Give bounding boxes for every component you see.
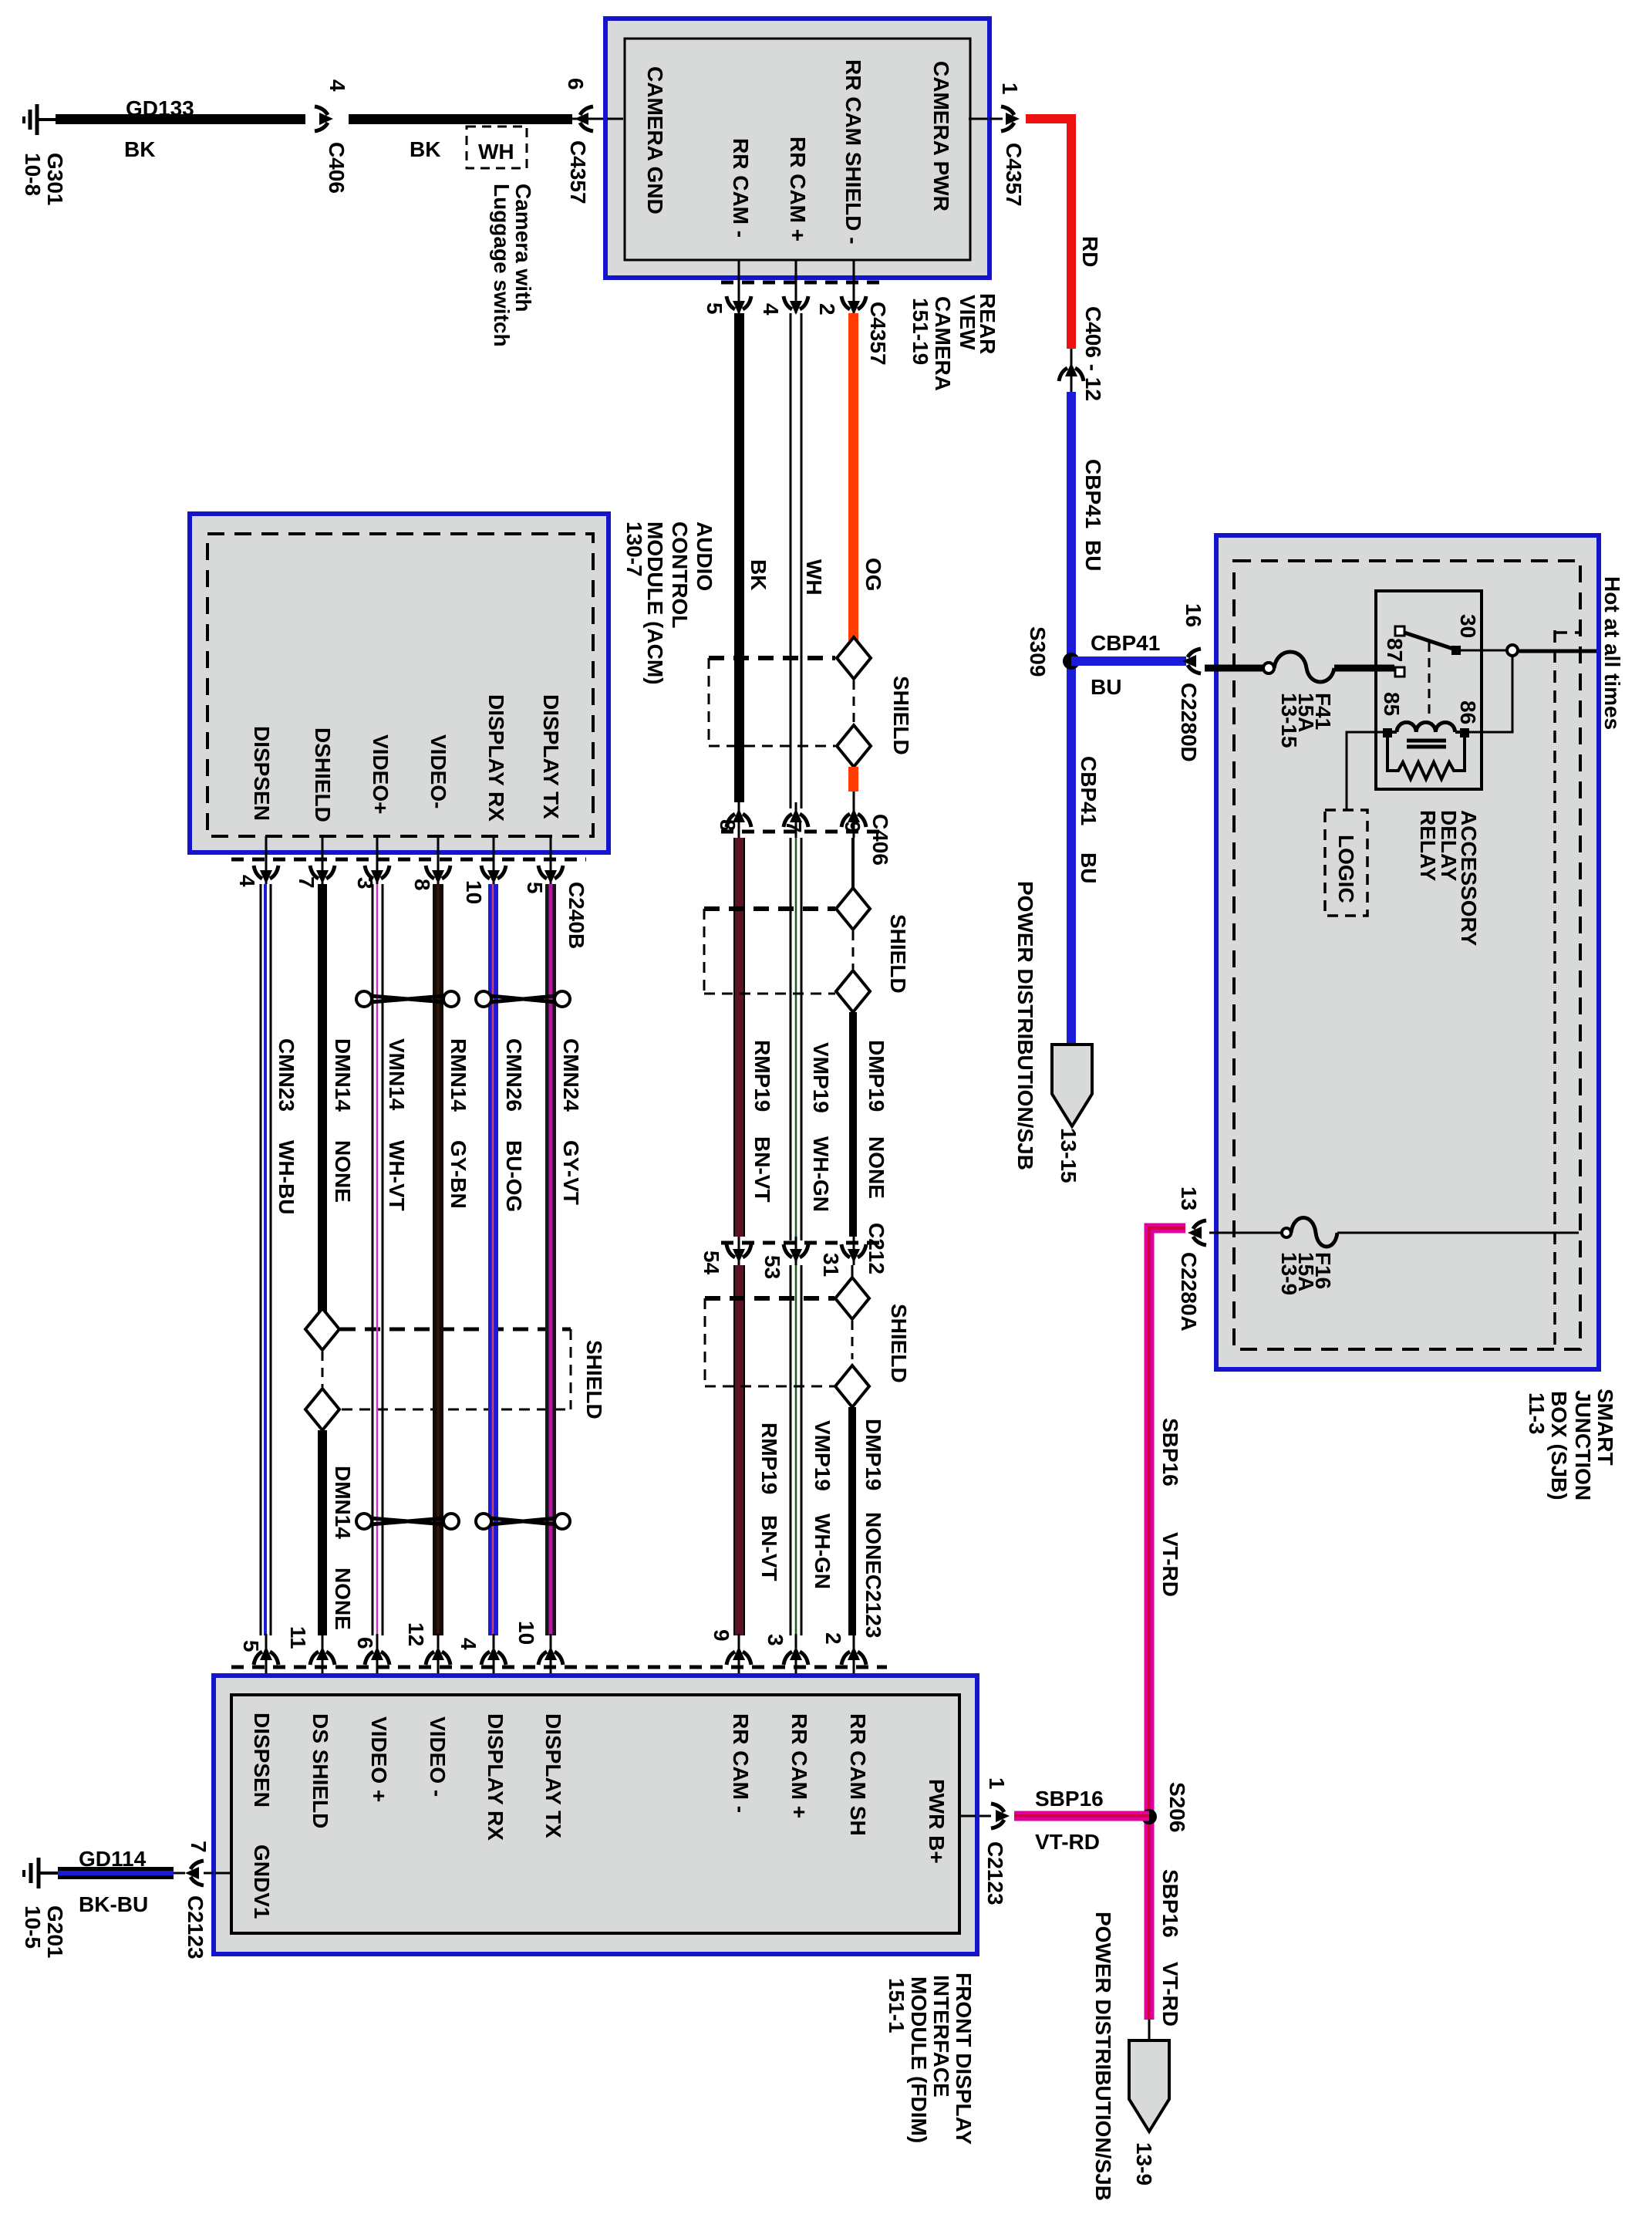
svg-text:4: 4 [235,875,259,887]
svg-text:31: 31 [819,1253,843,1277]
connector C4357 pin 6 arrow [564,78,604,204]
svg-text:13-15: 13-15 [1277,693,1301,748]
svg-text:VIDEO+: VIDEO+ [369,734,393,814]
wire VMP19 WH-GN segment 2 [791,1265,834,1635]
svg-text:85: 85 [1380,692,1404,716]
svg-text:AUDIO: AUDIO [693,521,716,591]
wire CMN26 BU-OG [488,884,526,1635]
splice S309 [1026,626,1080,677]
connector C2123 FDIM pins [231,1621,887,1695]
svg-text:S206: S206 [1165,1782,1189,1832]
svg-text:C406 - 12: C406 - 12 [1081,306,1105,401]
svg-text:NONE: NONE [865,1136,888,1199]
svg-text:SHIELD: SHIELD [889,676,913,755]
module AUDIO CONTROL MODULE (ACM) 130-7 [190,514,716,852]
svg-text:5: 5 [703,302,727,315]
svg-text:VMP19: VMP19 [811,1420,834,1491]
svg-text:BU-OG: BU-OG [502,1140,526,1212]
svg-text:BU: BU [1077,852,1101,883]
power distribution symbol 13-15 [1013,881,1092,1183]
svg-text:4: 4 [325,79,349,92]
svg-text:VT-RD: VT-RD [1158,1962,1182,2027]
svg-text:7: 7 [295,876,319,889]
svg-text:4: 4 [457,1638,480,1650]
svg-text:BU: BU [1081,540,1105,571]
svg-text:9: 9 [710,1629,733,1642]
splice S206 [1141,1782,1189,1832]
svg-text:1: 1 [998,83,1022,95]
svg-text:BK-BU: BK-BU [79,1892,148,1916]
svg-text:CMN26: CMN26 [502,1038,526,1112]
shield dashed box ACM [340,1329,606,1419]
connector C2280A pin 13 arrow [1177,1186,1206,1332]
svg-text:C2280D: C2280D [1177,683,1201,762]
svg-text:C4357: C4357 [1002,143,1026,207]
svg-text:Luggage switch: Luggage switch [490,184,514,347]
wire BK segment 2 with WH option box [349,114,572,347]
svg-text:WH-GN: WH-GN [811,1514,834,1589]
module SMART JUNCTION BOX (SJB) 11-3 [1216,535,1617,1500]
wire thick to fuse F41 [1205,665,1263,672]
svg-text:INTERFACE: INTERFACE [929,1975,953,2098]
svg-text:BOX (SJB): BOX (SJB) [1547,1391,1571,1500]
connector C240B pins 4 7 3 8 10 5 [231,836,588,949]
svg-text:BK: BK [747,559,770,590]
svg-text:POWER DISTRIBUTION/SJB: POWER DISTRIBUTION/SJB [1013,881,1037,1170]
wire RMP19 BN-VT segment 1 [734,838,774,1237]
wire DMP19 NONE segment 2 with shield [705,1265,911,1638]
svg-text:GY-BN: GY-BN [447,1140,470,1209]
svg-text:VT-RD: VT-RD [1035,1830,1100,1854]
wire SBP16 VT-RD S206 to FDIM [1014,1787,1149,1854]
svg-text:BN-VT: BN-VT [750,1136,774,1203]
connector C2123 pin 7 arrow GNDV1 [184,1841,214,1959]
svg-text:GNDV1: GNDV1 [250,1845,274,1919]
svg-text:DISPLAY RX: DISPLAY RX [484,694,508,822]
svg-text:10-8: 10-8 [21,153,45,196]
connector C2123 pin 1 arrow PWR B+ [977,1777,1010,1905]
svg-text:2: 2 [821,1632,845,1645]
wire RD CBP41 power feed [1026,119,1102,349]
wire GD133 BK segment 1 [56,96,305,161]
svg-text:WH-GN: WH-GN [809,1136,833,1212]
svg-text:C4357: C4357 [566,140,590,204]
svg-text:12: 12 [404,1622,428,1646]
svg-text:8: 8 [716,819,740,832]
svg-text:3: 3 [764,1634,787,1646]
logic block [1325,810,1367,916]
ground G201 [21,1858,67,1959]
connector C2280D pin 16 arrow [1177,603,1205,762]
svg-text:G201: G201 [43,1905,67,1959]
svg-text:CBP41: CBP41 [1091,631,1160,655]
connector C212 pins 54 53 31 [700,1223,888,1279]
svg-text:C406: C406 [325,142,349,194]
svg-text:CAMERA: CAMERA [931,296,955,391]
svg-text:RR CAM SHIELD -: RR CAM SHIELD - [841,59,865,245]
svg-text:WH-VT: WH-VT [385,1140,409,1211]
svg-text:4: 4 [759,303,783,316]
twisted pair crossover display upper [476,991,570,1007]
svg-text:G301: G301 [43,153,67,206]
svg-text:VT-RD: VT-RD [1158,1532,1182,1597]
node Hot at all times [1518,576,1624,730]
module FRONT DISPLAY INTERFACE MODULE (FDIM) 151-1 [214,1676,977,2145]
svg-text:RR CAM +: RR CAM + [786,137,810,241]
svg-text:151-1: 151-1 [885,1978,909,2034]
svg-text:RELAY: RELAY [1416,810,1440,882]
fuse F16 15A [1209,1218,1579,1296]
svg-text:7: 7 [187,1841,211,1853]
svg-text:SBP16: SBP16 [1158,1869,1182,1938]
svg-text:13: 13 [1177,1186,1201,1210]
svg-text:NONE: NONE [331,1568,355,1630]
svg-text:7: 7 [782,821,806,833]
svg-text:GD133: GD133 [126,96,194,120]
svg-text:RMN14: RMN14 [447,1038,470,1112]
svg-text:10-5: 10-5 [21,1905,45,1949]
svg-text:DMP19: DMP19 [865,1040,888,1112]
svg-text:VIDEO +: VIDEO + [367,1716,391,1802]
svg-text:1: 1 [985,1777,1009,1790]
svg-text:130-7: 130-7 [622,521,646,577]
svg-text:LOGIC: LOGIC [1334,835,1358,903]
svg-text:RR CAM -: RR CAM - [729,138,753,238]
svg-text:13-9: 13-9 [1132,2142,1156,2185]
svg-text:54: 54 [700,1251,723,1275]
svg-text:151-19: 151-19 [909,298,932,365]
wire BU CBP41 S309 to SJB [1071,631,1186,699]
svg-text:10: 10 [514,1621,538,1645]
svg-text:DMN14: DMN14 [331,1038,355,1112]
svg-text:PWR B+: PWR B+ [925,1779,949,1864]
svg-text:6: 6 [353,1637,377,1649]
svg-text:10: 10 [462,880,486,904]
svg-text:13-15: 13-15 [1057,1128,1081,1183]
wire VMN14 WH-VT [373,884,409,1635]
wire CMN24 GY-VT [545,884,583,1635]
svg-text:DISPSEN: DISPSEN [250,726,274,821]
power distribution symbol 13-9 [1091,1912,1169,2201]
labels CBP41 BU below S309 [1077,756,1101,883]
svg-text:11: 11 [286,1626,310,1649]
connector C4357 pin 1 arrow [990,83,1026,207]
svg-text:6: 6 [564,78,588,90]
svg-text:DSHIELD: DSHIELD [311,727,335,822]
svg-text:DMP19: DMP19 [861,1419,885,1490]
svg-text:RR CAM SH: RR CAM SH [846,1713,870,1836]
svg-text:GY-VT: GY-VT [559,1140,583,1205]
svg-text:CMN24: CMN24 [559,1038,583,1112]
shield symbol on OG wire [709,637,913,791]
wire relay 30 to hot node [1461,645,1596,732]
wire WH camera pin 4 [791,313,826,808]
svg-text:C2280A: C2280A [1177,1252,1201,1332]
twisted pair crossover display lower [476,1514,570,1529]
svg-text:CMN23: CMN23 [275,1038,298,1112]
svg-text:SHIELD: SHIELD [886,914,910,994]
connector C406 pins 8 7 9 [716,791,892,866]
svg-text:JUNCTION: JUNCTION [1571,1390,1595,1500]
svg-text:WH: WH [802,559,826,596]
svg-text:VIDEO -: VIDEO - [426,1716,450,1797]
svg-text:C240B: C240B [565,882,588,949]
svg-text:CAMERA GND: CAMERA GND [643,66,667,214]
svg-text:DISPLAY TX: DISPLAY TX [541,1713,565,1838]
svg-text:RR CAM -: RR CAM - [729,1713,753,1813]
svg-text:SMART: SMART [1593,1389,1617,1466]
svg-text:2: 2 [815,303,839,316]
svg-text:VIEW: VIEW [956,295,979,350]
wire CMN23 WH-BU [261,884,298,1635]
svg-text:WH-BU: WH-BU [275,1140,298,1214]
wire OG camera pin 2 [848,313,885,641]
svg-text:SBP16: SBP16 [1158,1418,1182,1487]
wire BK camera pin 5 [734,313,770,802]
svg-text:RD: RD [1078,236,1102,267]
wire BU CBP41 to S309 [1071,392,1105,1043]
svg-text:DISPLAY RX: DISPLAY RX [484,1713,507,1841]
wire RMP19 BN-VT segment 2 [734,1265,781,1635]
svg-text:RMP19: RMP19 [750,1040,774,1112]
wire DMN14 NONE with shield [305,884,355,1635]
svg-text:FRONT DISPLAY: FRONT DISPLAY [952,1973,976,2145]
svg-text:VMP19: VMP19 [809,1042,833,1113]
svg-text:MODULE (FDIM): MODULE (FDIM) [907,1976,931,2143]
wire SBP16 VT-RD from SJB to S206 [1149,1228,1185,2020]
svg-text:87: 87 [1383,638,1407,662]
svg-text:9: 9 [841,821,865,833]
svg-text:53: 53 [760,1255,784,1279]
svg-text:NONEC2123: NONEC2123 [861,1512,885,1638]
svg-text:CAMERA PWR: CAMERA PWR [929,61,953,211]
svg-text:WH: WH [478,140,514,164]
svg-text:16: 16 [1182,603,1205,627]
svg-text:CBP41: CBP41 [1081,459,1105,528]
svg-text:Camera with: Camera with [511,184,535,312]
svg-text:C406: C406 [868,814,892,866]
svg-text:CONTROL: CONTROL [668,521,692,628]
svg-text:30: 30 [1456,614,1480,638]
labels ACCESSORY DELAY RELAY [1416,810,1481,947]
twisted pair crossover video upper [356,991,459,1007]
svg-text:SHIELD: SHIELD [582,1340,606,1419]
svg-text:BK: BK [124,137,155,161]
svg-text:S309: S309 [1026,626,1050,677]
svg-text:SBP16: SBP16 [1035,1787,1104,1811]
svg-text:13-9: 13-9 [1277,1252,1301,1295]
svg-text:CBP41: CBP41 [1077,756,1101,825]
svg-text:5: 5 [523,882,547,894]
wire DMP19 NONE segment 1 with shield [704,838,910,1237]
svg-text:BN-VT: BN-VT [757,1515,781,1581]
wire RMN14 GY-BN [433,884,470,1635]
svg-text:VIDEO-: VIDEO- [426,734,450,808]
svg-text:8: 8 [410,879,434,891]
relay ACCESSORY DELAY RELAY [1376,591,1482,789]
wire SBP16 VT-RD to power distribution 13-9 [1149,1869,1182,2040]
wire relay 85 to logic [1347,732,1383,810]
svg-text:NONE: NONE [331,1140,355,1203]
svg-text:OG: OG [861,558,885,592]
svg-text:VMN14: VMN14 [385,1038,409,1111]
module REAR VIEW CAMERA 151-19 [605,19,1000,391]
svg-text:DMN14: DMN14 [331,1466,355,1539]
connector C4357 camera pins 5 4 2 [703,260,890,366]
svg-text:11-3: 11-3 [1525,1392,1549,1435]
svg-text:5: 5 [239,1640,263,1652]
svg-text:C4357: C4357 [866,302,890,366]
svg-text:C212: C212 [865,1223,888,1274]
wire GD114 BK-BU [58,1847,185,1916]
svg-text:DISPSEN: DISPSEN [250,1713,274,1807]
svg-text:RMP19: RMP19 [757,1423,781,1494]
svg-text:Hot at all times: Hot at all times [1600,576,1624,730]
twisted pair crossover video lower [356,1514,459,1529]
svg-text:POWER DISTRIBUTION/SJB: POWER DISTRIBUTION/SJB [1091,1912,1115,2201]
svg-text:BK: BK [410,137,440,161]
connector C406 pin 12 arrow on power wire [1059,306,1105,401]
ground G301 [21,104,67,206]
svg-text:DS SHIELD: DS SHIELD [308,1713,332,1828]
svg-text:SHIELD: SHIELD [887,1304,911,1383]
connector C406 pin 4 arrow [315,79,349,194]
svg-text:86: 86 [1456,700,1480,724]
fuse F41 15A [1263,652,1394,748]
svg-text:C2123: C2123 [184,1895,207,1959]
svg-text:DISPLAY TX: DISPLAY TX [539,694,563,819]
svg-text:BU: BU [1091,675,1121,699]
wire VMP19 WH-GN segment 1 [791,838,833,1240]
svg-text:RR CAM +: RR CAM + [787,1713,811,1818]
svg-text:GD114: GD114 [79,1847,147,1871]
svg-text:C2123: C2123 [983,1841,1007,1905]
